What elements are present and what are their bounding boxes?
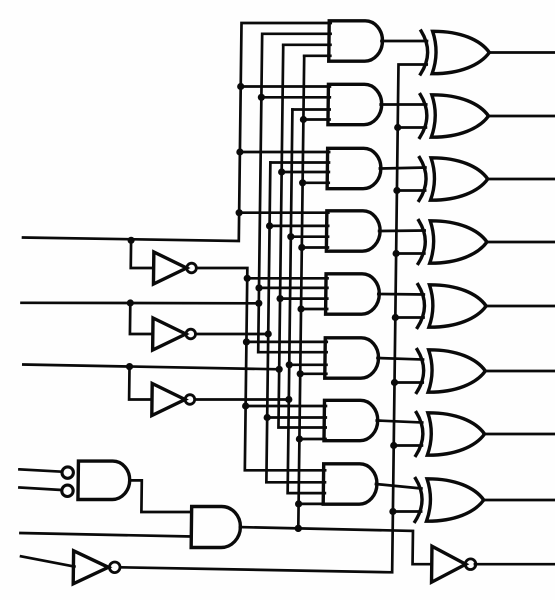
inverter NOT2 (153, 318, 196, 350)
junction E-G3 (299, 179, 306, 186)
wire XOR4 output (486, 241, 555, 244)
wire C to G5 pin3 (280, 297, 327, 300)
and gate G1 (329, 21, 383, 61)
junction bus-XOR2 (394, 124, 401, 131)
junction bus-XOR8 (389, 508, 396, 515)
wire AND-BM output (239, 527, 432, 564)
xor gate X8 (415, 479, 484, 522)
wire B to G5 pin2 (259, 287, 327, 290)
junction E-G8 (295, 500, 302, 507)
junction E-G2 (300, 116, 307, 123)
wire E to G4 pin4 (302, 246, 328, 249)
wire XOR6 output (484, 370, 555, 373)
wire E top to G1 pin4 (304, 54, 330, 57)
junction C-G3 (278, 168, 285, 175)
wire bus to XOR8 pin2 (393, 510, 421, 513)
wire G1 output to XOR1 pin1 (381, 40, 427, 43)
wire NAND input b (19, 488, 60, 490)
junction A-G4 (235, 209, 242, 216)
wire bus to XOR6 pin2 (395, 381, 423, 384)
wire B to G2 pin2 (261, 96, 329, 99)
wire NOT3 input elbow (129, 367, 152, 400)
junction bus-XOR5 (392, 314, 399, 321)
junction C-G5 (276, 295, 283, 302)
wire B-not top to G3 pin2 (270, 161, 329, 164)
wire E to G3 pin4 (303, 181, 329, 184)
xor gate X7 (416, 413, 485, 456)
wire NOT3 output (195, 398, 289, 401)
wire B below tee to G6 pin2 (258, 303, 327, 352)
wire G8 output to XOR8 pin1 (376, 484, 422, 489)
wire XOR3 output (487, 178, 555, 181)
junction bus-XOR7 (390, 442, 397, 449)
wire A to G3 pin1 (240, 151, 329, 154)
wire XOR7 output (484, 433, 555, 436)
inverter NOT-BR (432, 546, 477, 582)
and gate U11 (enable) (191, 507, 241, 548)
junction ANDout-E (295, 525, 302, 532)
junction Anot-G5 (244, 275, 251, 282)
wire B-not to G7 pin2 (267, 416, 326, 419)
wire E to G8 pin4 (299, 503, 325, 506)
wire C to G3 pin3 (282, 171, 329, 174)
junction Cnot-G6 (286, 361, 293, 368)
junction Cnot-G4 (287, 233, 294, 240)
wire bus to XOR2 pin2 (398, 126, 426, 129)
wire E to G5 pin4 (301, 308, 327, 311)
junction input-2 tee (255, 300, 262, 307)
and gate G6 (325, 338, 379, 378)
junction input-3 tee (276, 366, 283, 373)
junction bus-XOR4 (392, 250, 399, 257)
wire A to G2 pin1 (241, 85, 330, 88)
wire G4 output to XOR4 pin1 (379, 229, 425, 232)
wire NOT2 input elbow (130, 303, 153, 334)
wire XOR5 output (485, 305, 555, 308)
junction input-3 to NOT3 (126, 363, 133, 370)
and gate G7 (324, 400, 378, 440)
and gate G3 (327, 148, 381, 188)
junction Bnot-G4 (266, 222, 273, 229)
wire G2 output to XOR2 pin1 (381, 103, 427, 106)
wire B-not bus (266, 163, 329, 483)
wire NAND output to AND-BM pin1 (130, 480, 191, 512)
wire bus to XOR5 pin2 (395, 316, 423, 319)
wire C-not top to G2 pin3 (292, 108, 329, 111)
wire A-not to G5 pin1 (247, 277, 327, 280)
and gate G2 (328, 84, 382, 124)
junction B-G5 (255, 284, 262, 291)
junction E bottom tee (295, 525, 302, 532)
junction B-G2 (258, 94, 265, 101)
xor gate X1 (421, 31, 490, 74)
junction input-1 to NOT1 (127, 237, 134, 244)
wire C-not to G4 pin3 (291, 235, 328, 238)
inverter NOT1 (153, 252, 196, 284)
xor gate X6 (417, 350, 486, 393)
wire input-1 and A-true bus (23, 23, 331, 241)
wire C top to G1 pin3 (283, 43, 330, 46)
wire NOT-BR output (475, 563, 555, 566)
junction bus-XOR6 (391, 379, 398, 386)
junction A-G2 (237, 83, 244, 90)
junction E-G4 (298, 244, 305, 251)
inverter NOT-BL (73, 551, 120, 584)
xor gate X4 (418, 221, 487, 264)
junction NOT2-Bnot (265, 330, 272, 337)
junction A-G3 (236, 148, 243, 155)
wire input-4 to AND-BM pin2 (20, 533, 190, 537)
wire input-2 and B-true bus (22, 34, 331, 304)
wire bus to XOR7 pin2 (394, 444, 422, 447)
wire G6 output to XOR6 pin1 (378, 358, 424, 360)
nand-style gate U10 with inverted inputs (62, 461, 130, 499)
wire C-not to G6 pin3 (289, 363, 326, 366)
wire NOT1 output and A-not bus (194, 268, 328, 470)
junction NOT3-Cnot (285, 396, 292, 403)
wire C-not bus (288, 110, 330, 494)
wire A to G4 pin1 (239, 211, 328, 214)
junction bus-XOR3 (393, 187, 400, 194)
xor gate X3 (419, 158, 488, 201)
junction E-G6 (297, 370, 304, 377)
wire bus to XOR4 pin2 (396, 252, 424, 255)
wire E to G2 pin4 (303, 118, 329, 121)
wire G3 output to XOR3 pin1 (380, 168, 426, 169)
xor gate X5 (417, 285, 486, 328)
wire A-not to G7 pin1 (246, 405, 326, 408)
wire E to G7 pin4 (299, 438, 325, 441)
wire XOR8 output (483, 499, 555, 502)
wire bus to XOR3 pin2 (397, 189, 425, 192)
inverter NOT3 (152, 384, 195, 416)
wire E to G6 pin4 (300, 372, 326, 375)
and gate G8 (323, 464, 377, 504)
wire A-not to G6 pin1 (246, 341, 326, 344)
junction Anot-G6 (243, 338, 250, 345)
junction E-G7 (296, 435, 303, 442)
wire input-3 (23, 365, 279, 370)
wire G5 output to XOR5 pin1 (378, 293, 424, 296)
wire input-5 to NOT-BL (21, 556, 75, 566)
wire G7 output to XOR7 pin1 (377, 421, 423, 423)
wire XOR1 output (488, 51, 555, 54)
junction input-2 to NOT2 (127, 299, 134, 306)
wire E bus (298, 56, 304, 529)
and gate G5 (326, 274, 380, 314)
junction Bnot-G7 (264, 414, 271, 421)
xor gate X2 (420, 95, 489, 138)
wire B-not to G4 pin2 (270, 225, 329, 228)
wire NOT-BL output and XOR control bus (120, 65, 427, 573)
and gate G4 (326, 211, 380, 251)
wire XOR2 output (488, 115, 555, 118)
wire NOT1 input elbow (131, 240, 154, 268)
junction Anot-G7 (242, 402, 249, 409)
wire NOT2 output (196, 333, 269, 336)
junction E-G5 (297, 305, 304, 312)
wire C-true bus (278, 45, 330, 428)
wire NAND input a (19, 469, 60, 471)
